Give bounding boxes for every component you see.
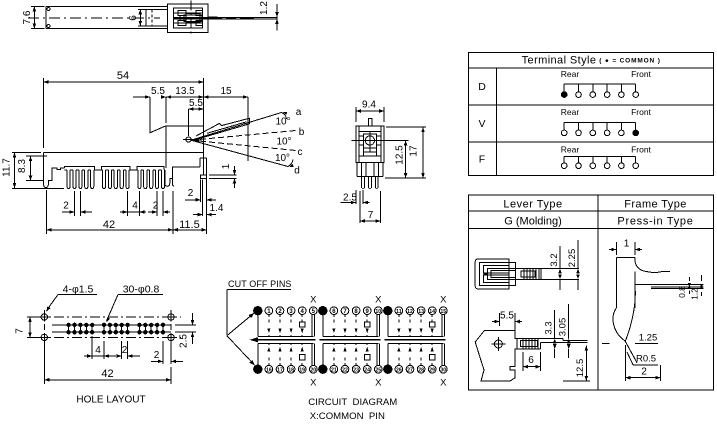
svg-text:1: 1 [221,163,232,169]
svg-text:2: 2 [122,345,128,356]
svg-text:3.3: 3.3 [544,321,555,334]
svg-text:30-φ0.8: 30-φ0.8 [123,284,160,296]
svg-text:Lever Type: Lever Type [503,199,562,211]
svg-text:c: c [298,147,303,158]
svg-text:10°: 10° [275,153,290,164]
svg-text:G (Molding): G (Molding) [504,216,561,228]
svg-text:24: 24 [364,367,370,373]
svg-text:Front: Front [631,69,651,79]
svg-text:X: X [440,295,447,306]
svg-text:X: X [310,295,317,306]
svg-text:29: 29 [429,367,435,373]
svg-text:13.5: 13.5 [175,86,195,97]
svg-text:21: 21 [331,367,337,373]
svg-text:HOLE LAYOUT: HOLE LAYOUT [76,395,145,406]
svg-text:a: a [296,107,302,118]
svg-text:18: 18 [288,367,294,373]
svg-text:d: d [294,166,300,177]
svg-text:7: 7 [15,328,26,334]
svg-text:25: 25 [375,367,381,373]
svg-text:11: 11 [396,309,402,315]
svg-text:1: 1 [624,239,630,250]
svg-text:11.5: 11.5 [179,219,200,231]
svg-text:0.8: 0.8 [677,286,687,298]
svg-text:( ● = COMMON ): ( ● = COMMON ) [599,58,661,65]
svg-text:5.5: 5.5 [151,86,165,97]
svg-text:V: V [478,118,485,130]
svg-text:D: D [478,81,486,93]
svg-text:42: 42 [103,219,115,231]
svg-text:X: X [375,378,382,389]
svg-text:11.7: 11.7 [2,158,13,177]
svg-text:7: 7 [368,210,374,221]
svg-text:X: X [310,378,317,389]
svg-text:R0.5: R0.5 [636,354,656,365]
svg-text:2.25: 2.25 [567,249,578,268]
svg-text:5.5: 5.5 [189,98,203,109]
svg-text:9.4: 9.4 [362,100,376,111]
svg-text:13: 13 [418,309,424,315]
svg-text:6: 6 [128,15,139,21]
svg-text:17: 17 [409,145,420,157]
svg-text:F: F [479,153,485,165]
svg-text:Rear: Rear [561,144,580,154]
svg-text:12.5: 12.5 [395,145,406,165]
svg-text:14: 14 [429,309,435,315]
svg-text:4-φ1.5: 4-φ1.5 [63,284,94,296]
svg-text:17: 17 [277,367,283,373]
svg-text:3.2: 3.2 [549,253,560,266]
svg-text:10°: 10° [276,137,291,148]
svg-text:4: 4 [95,345,101,356]
svg-text:27: 27 [407,367,413,373]
svg-text:26: 26 [396,367,402,373]
svg-text:3.05: 3.05 [558,318,569,337]
svg-text:Press-in Type: Press-in Type [617,216,693,228]
svg-text:23: 23 [353,367,359,373]
svg-text:16: 16 [266,367,272,373]
svg-text:2: 2 [154,350,160,361]
svg-text:2.5: 2.5 [343,193,357,204]
svg-text:19: 19 [299,367,305,373]
svg-text:54: 54 [117,70,129,82]
svg-text:Terminal Style: Terminal Style [522,55,597,67]
svg-text:2: 2 [188,188,194,199]
svg-text:1.2: 1.2 [690,288,700,300]
svg-text:15: 15 [440,309,446,315]
svg-text:Rear: Rear [561,69,580,79]
svg-text:7.6: 7.6 [22,10,33,24]
svg-text:CUT OFF PINS: CUT OFF PINS [228,279,292,289]
svg-text:2: 2 [153,201,159,212]
svg-text:b: b [299,127,305,138]
svg-text:5.5: 5.5 [500,311,514,322]
svg-text:2.5: 2.5 [179,334,190,348]
svg-text:1.25: 1.25 [639,333,658,344]
svg-text:X: X [375,295,382,306]
svg-text:CIRCUIT DIAGRAM: CIRCUIT DIAGRAM [308,397,397,408]
svg-text:42: 42 [101,368,113,380]
svg-text:Rear: Rear [561,107,580,117]
svg-text:X: X [440,378,447,389]
svg-text:10: 10 [375,309,381,315]
svg-text:2: 2 [641,367,647,378]
svg-text:10°: 10° [275,117,290,128]
svg-text:12.5: 12.5 [575,359,586,378]
svg-text:1.4: 1.4 [210,203,224,214]
svg-text:2: 2 [63,201,69,212]
svg-text:20: 20 [310,367,316,373]
svg-text:22: 22 [342,367,348,373]
svg-text:1.2: 1.2 [259,1,270,15]
svg-text:8.3: 8.3 [17,159,28,173]
svg-text:28: 28 [418,367,424,373]
svg-text:30: 30 [440,367,446,373]
svg-text:Front: Front [631,107,651,117]
svg-text:6: 6 [528,355,534,366]
svg-text:15: 15 [220,86,232,97]
svg-text:12: 12 [407,309,413,315]
svg-text:Front: Front [631,144,651,154]
svg-text:Frame Type: Frame Type [624,199,687,211]
svg-text:4: 4 [132,201,138,212]
svg-text:X:COMMON PIN: X:COMMON PIN [310,411,385,422]
